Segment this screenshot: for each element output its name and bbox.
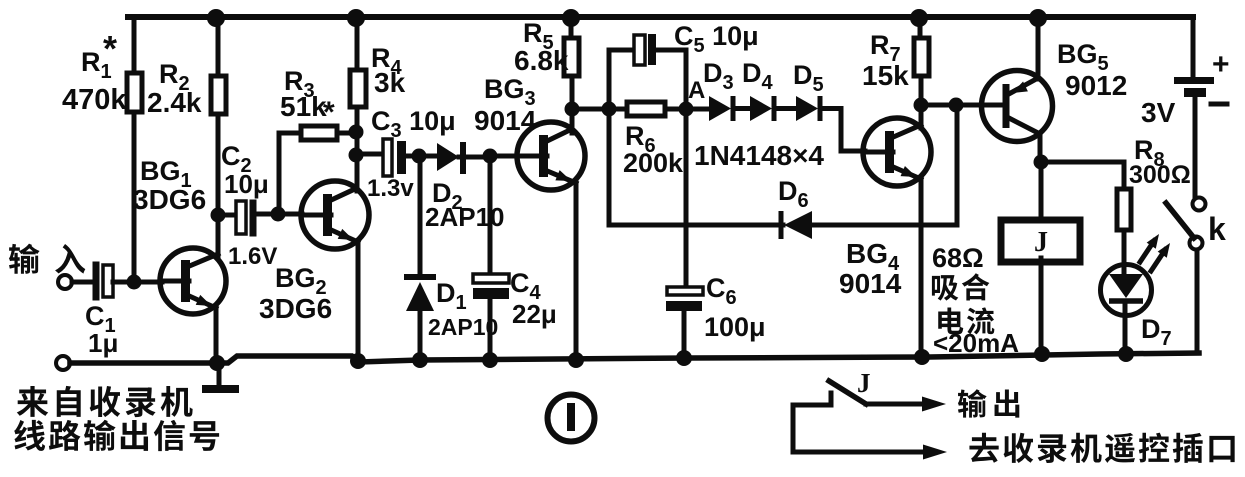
- svg-text:15k: 15k: [862, 60, 909, 91]
- svg-text:D6: D6: [778, 176, 809, 212]
- svg-text:2.4k: 2.4k: [147, 87, 202, 118]
- svg-text:J: J: [1034, 227, 1048, 258]
- svg-text:22μ: 22μ: [512, 299, 557, 329]
- svg-text:2AP10: 2AP10: [425, 202, 505, 232]
- svg-text:68Ω: 68Ω: [932, 243, 984, 273]
- svg-text:1N4148×4: 1N4148×4: [694, 140, 824, 171]
- svg-text:3DG6: 3DG6: [259, 293, 332, 324]
- svg-text:+: +: [1212, 48, 1230, 81]
- svg-text:<20mA: <20mA: [933, 328, 1019, 358]
- svg-text:k: k: [1208, 211, 1226, 247]
- svg-text:C6: C6: [706, 273, 737, 309]
- svg-text:1.6V: 1.6V: [228, 243, 277, 270]
- svg-text:J: J: [857, 368, 871, 398]
- svg-text:D5: D5: [793, 60, 824, 96]
- svg-text:470k: 470k: [62, 84, 127, 116]
- svg-text:51k: 51k: [280, 91, 327, 122]
- svg-text:300Ω: 300Ω: [1129, 161, 1191, 189]
- svg-text:D3: D3: [703, 58, 734, 94]
- svg-text:6.8k: 6.8k: [514, 45, 569, 76]
- svg-text:9014: 9014: [839, 268, 902, 299]
- svg-text:3k: 3k: [374, 67, 406, 98]
- svg-text:10μ: 10μ: [224, 169, 269, 199]
- svg-text:2AP10: 2AP10: [428, 314, 498, 340]
- svg-text:1μ: 1μ: [88, 328, 118, 358]
- svg-text:*: *: [323, 96, 335, 129]
- svg-text:100μ: 100μ: [704, 312, 766, 342]
- svg-text:9014: 9014: [474, 105, 537, 136]
- svg-text:3DG6: 3DG6: [133, 184, 206, 215]
- svg-text:D7: D7: [1141, 314, 1172, 350]
- svg-text:D1: D1: [436, 278, 467, 314]
- svg-text:*: *: [103, 28, 117, 69]
- svg-text:9012: 9012: [1065, 70, 1127, 101]
- svg-text:200k: 200k: [623, 148, 684, 178]
- svg-text:1.3v: 1.3v: [367, 175, 414, 202]
- svg-text:D4: D4: [742, 58, 774, 94]
- svg-text:C3 10μ: C3 10μ: [371, 106, 456, 142]
- svg-text:3V: 3V: [1141, 97, 1176, 128]
